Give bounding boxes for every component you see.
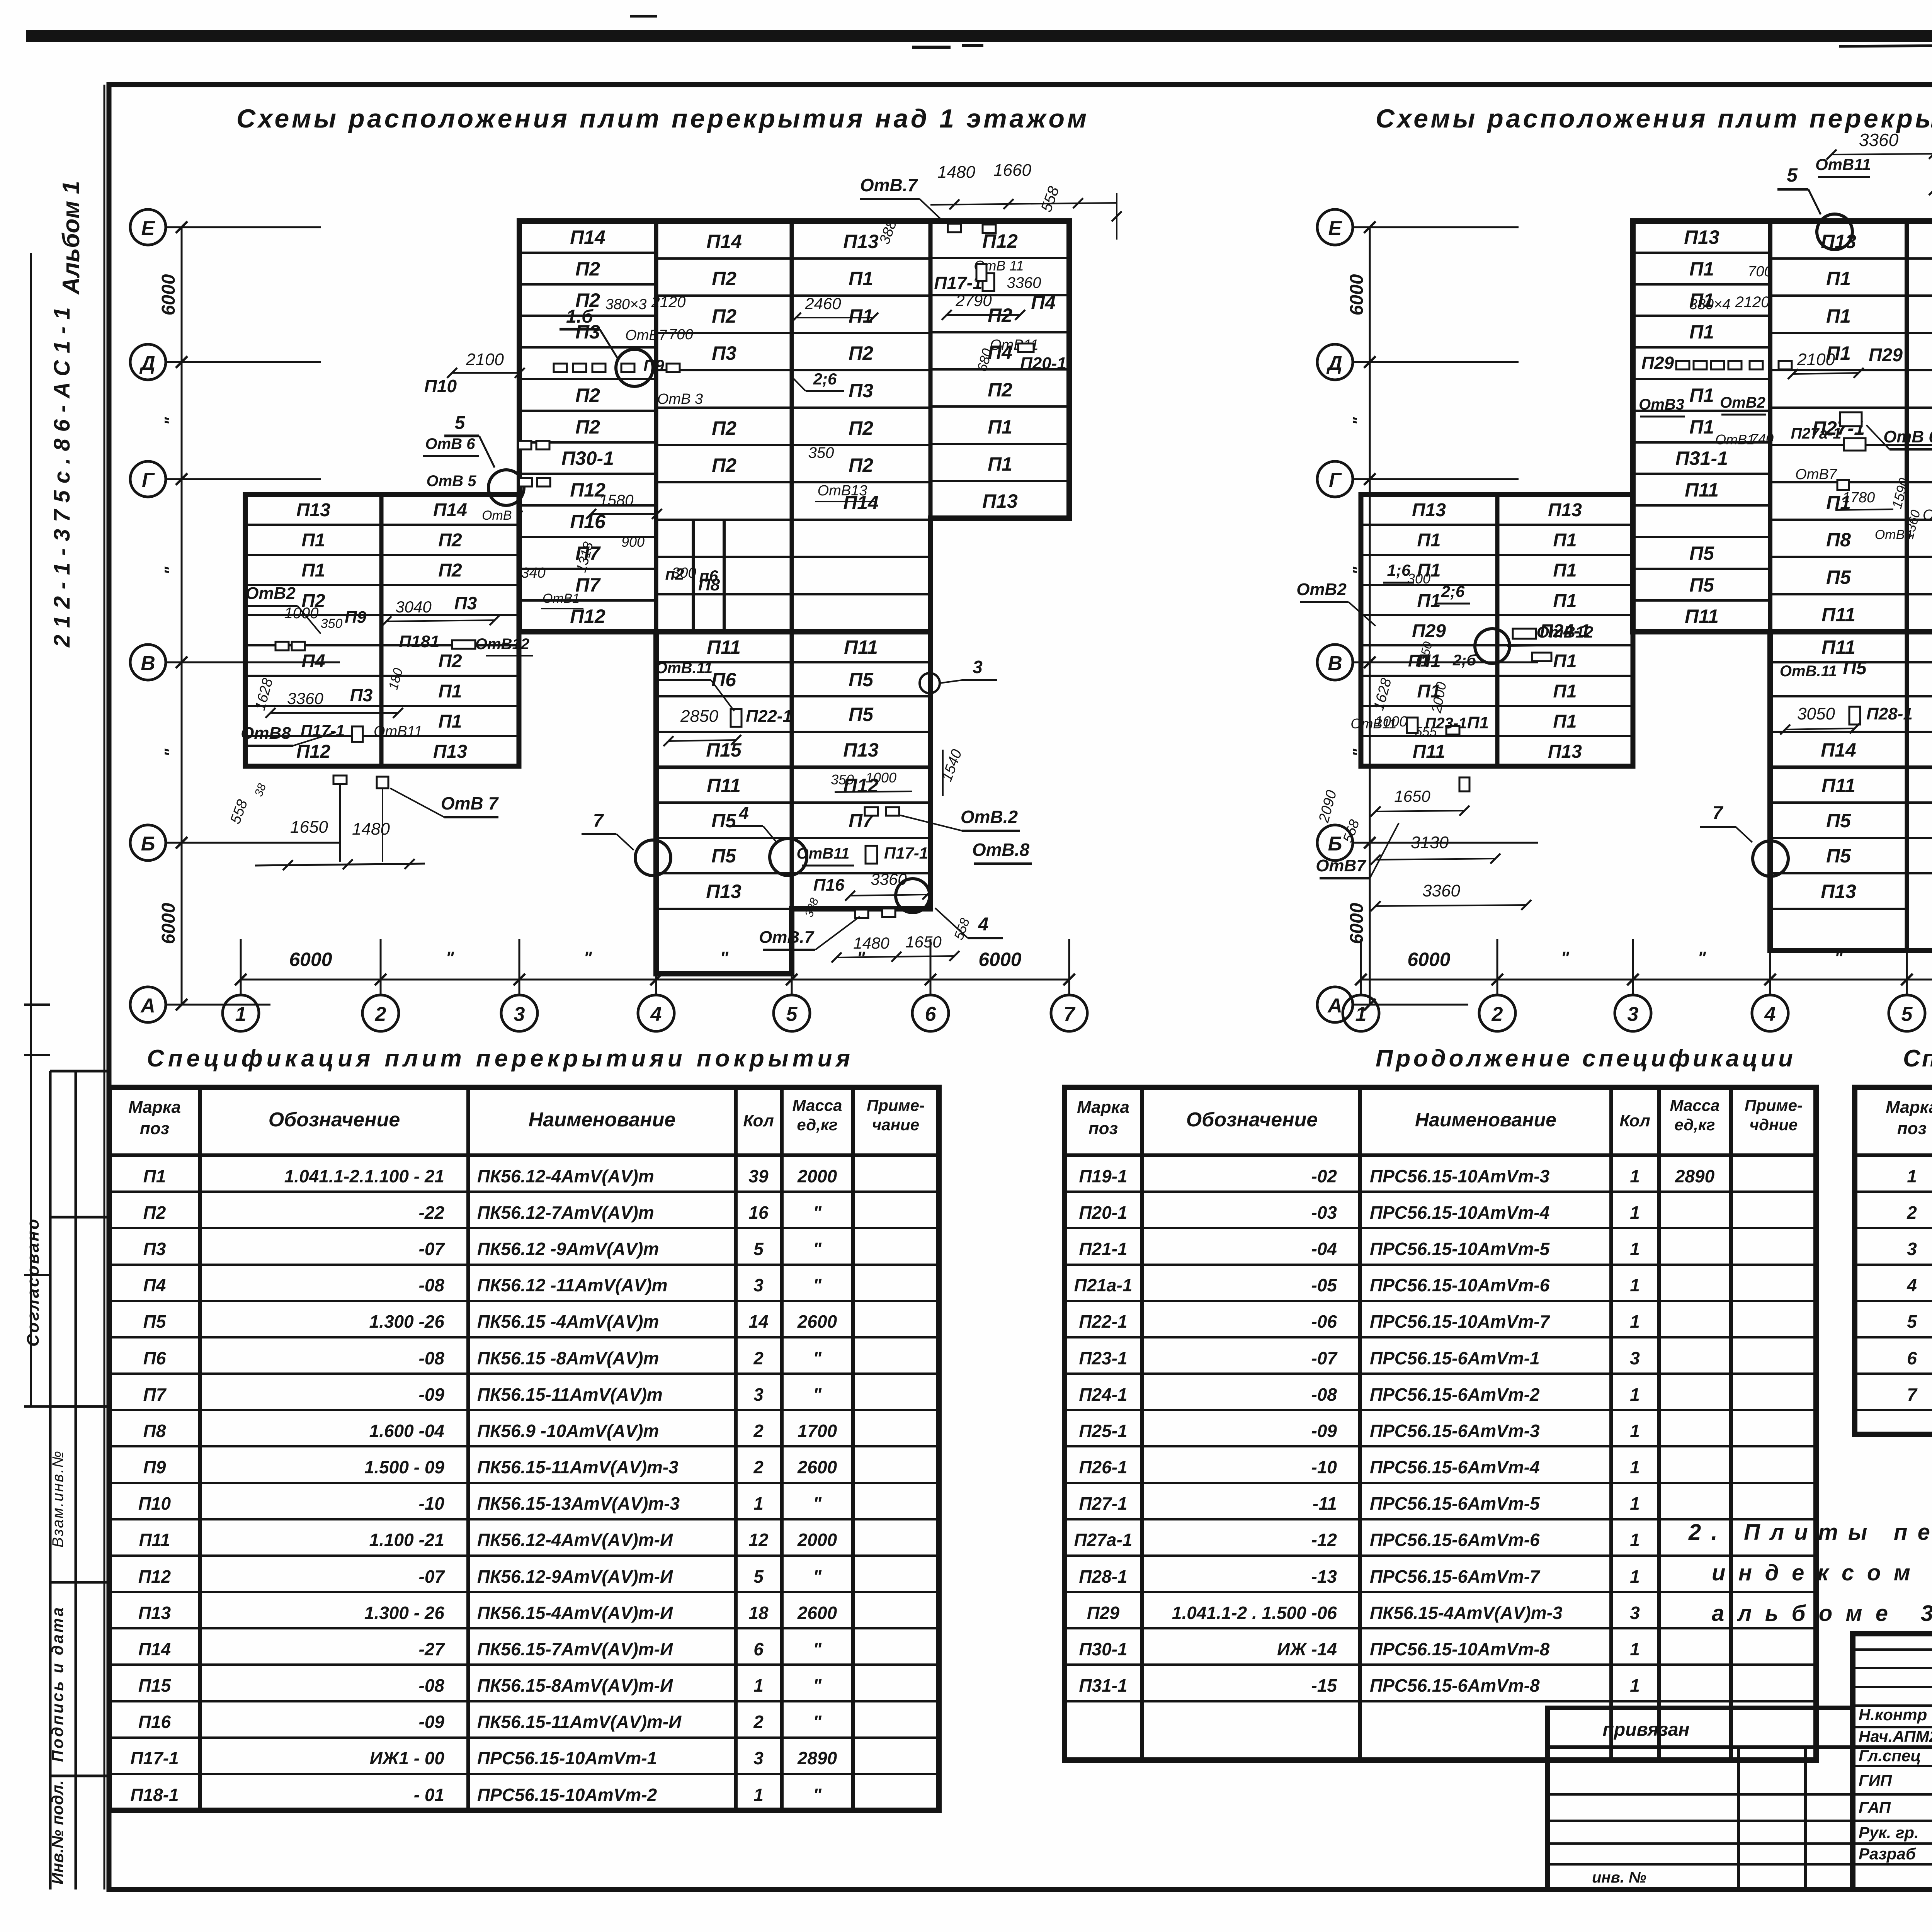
- svg-text:Кол: Кол: [743, 1111, 774, 1130]
- svg-text:ИЖ -14: ИЖ -14: [1277, 1639, 1337, 1659]
- svg-text:2100: 2100: [466, 350, 504, 369]
- svg-text:ОтВ 6: ОтВ 6: [1883, 427, 1932, 446]
- axis circle Г: [1317, 461, 1353, 497]
- svg-text:3: 3: [973, 657, 983, 677]
- svg-text:1: 1: [753, 1493, 764, 1514]
- svg-text:1700: 1700: [798, 1421, 837, 1441]
- svg-text:16: 16: [748, 1202, 769, 1223]
- svg-text:ОтВ12: ОтВ12: [475, 636, 529, 653]
- svg-text:П24-1: П24-1: [1079, 1384, 1127, 1405]
- svg-text:П1: П1: [1553, 530, 1577, 551]
- svg-text:ПРС56.15-6АтVт-5: ПРС56.15-6АтVт-5: [1370, 1493, 1540, 1514]
- svg-text:поз: поз: [1088, 1119, 1118, 1138]
- svg-text:П10: П10: [138, 1493, 171, 1514]
- svg-text:1480: 1480: [352, 820, 390, 838]
- svg-text:6000: 6000: [1347, 274, 1367, 315]
- svg-text:Масса: Масса: [793, 1096, 842, 1114]
- svg-text:-07: -07: [419, 1239, 446, 1259]
- svg-text:1.041.1-2.1.100 - 21: 1.041.1-2.1.100 - 21: [284, 1166, 444, 1186]
- axis Г row line: [1352, 478, 1519, 480]
- svg-text:ПРС56.15-10АтVт-2: ПРС56.15-10АтVт-2: [477, 1785, 657, 1805]
- svg-text:ОтВ13: ОтВ13: [818, 483, 867, 499]
- svg-text:П13: П13: [1548, 500, 1582, 520]
- svg-text:- 01: - 01: [414, 1785, 444, 1805]
- svg-text:П13: П13: [706, 881, 742, 902]
- revision extension box: [1548, 1708, 1853, 1889]
- svg-text:2600: 2600: [797, 1311, 837, 1332]
- svg-text:П23-1: П23-1: [1079, 1348, 1127, 1368]
- svg-text:П2: П2: [988, 379, 1012, 401]
- svg-text:1: 1: [1630, 1421, 1640, 1441]
- svg-text:П5: П5: [1826, 566, 1851, 588]
- svg-text:-27: -27: [419, 1639, 446, 1659]
- svg-text:ПК56.12-7АтV(АV)т: ПК56.12-7АтV(АV)т: [477, 1202, 654, 1223]
- svg-text:П1: П1: [1689, 416, 1714, 438]
- svg-text:2100: 2100: [1797, 350, 1835, 369]
- svg-text:": ": [1349, 417, 1368, 425]
- small cells п2 п6: [692, 520, 695, 632]
- svg-text:ОтВ7: ОтВ7: [625, 327, 668, 344]
- svg-text:П1: П1: [988, 453, 1012, 475]
- svg-text:ПРС56.15-6АтVт-2: ПРС56.15-6АтVт-2: [1370, 1384, 1540, 1405]
- svg-text:П21а-1: П21а-1: [1074, 1275, 1133, 1295]
- svg-text:14: 14: [748, 1311, 768, 1332]
- svg-text:П3: П3: [712, 342, 736, 364]
- svg-text:1.б: 1.б: [566, 306, 594, 327]
- svg-text:350: 350: [321, 616, 343, 631]
- svg-text:2;б: 2;б: [1452, 652, 1477, 669]
- below-B dim cluster 1650 1480 ОтВ7: [333, 776, 347, 784]
- axis circle Д: [130, 344, 166, 380]
- axis Б row line: [1352, 842, 1538, 844]
- svg-text:ед,кг: ед,кг: [1674, 1116, 1715, 1134]
- svg-text:П1: П1: [438, 681, 462, 702]
- svg-text:ОтВ8: ОтВ8: [241, 724, 291, 743]
- left plan block B outline: [245, 495, 519, 766]
- svg-text:-08: -08: [419, 1275, 445, 1295]
- svg-text:1.041.1-2 . 1.500 -06: 1.041.1-2 . 1.500 -06: [1172, 1603, 1337, 1623]
- svg-text:П11: П11: [1685, 605, 1719, 627]
- svg-text:380×3: 380×3: [605, 296, 647, 313]
- svg-text:ПК56.12-4АтV(АV)т: ПК56.12-4АтV(АV)т: [477, 1166, 654, 1186]
- svg-text:700: 700: [668, 327, 693, 343]
- svg-text:3: 3: [753, 1748, 764, 1768]
- svg-text:ОтВ7: ОтВ7: [1795, 466, 1838, 483]
- axis circle Д: [1317, 344, 1353, 380]
- svg-text:П30-1: П30-1: [1079, 1639, 1127, 1659]
- svg-text:П8: П8: [1826, 529, 1851, 551]
- svg-text:П11: П11: [707, 775, 741, 796]
- svg-text:Приме-: Приме-: [1745, 1096, 1803, 1114]
- svg-text:3: 3: [753, 1384, 764, 1405]
- svg-text:ПК56.15-11АтV(АV)т-И: ПК56.15-11АтV(АV)т-И: [477, 1712, 682, 1732]
- column line 4 stub: [1769, 939, 1771, 995]
- svg-text:Схемы расположения плит перекр: Схемы расположения плит перекрытия над I…: [1376, 104, 1932, 133]
- column line 4 stub: [655, 939, 657, 995]
- svg-text:1;6: 1;6: [1387, 561, 1411, 579]
- svg-text:-07: -07: [419, 1566, 446, 1587]
- svg-text:П1: П1: [1826, 268, 1851, 289]
- svg-text:ПРС56.15-6АтVт-3: ПРС56.15-6АтVт-3: [1370, 1421, 1540, 1441]
- svg-text:ОтВ 7: ОтВ 7: [441, 793, 499, 813]
- svg-text:ОтВ11: ОтВ11: [1350, 716, 1396, 731]
- svg-text:6000: 6000: [289, 949, 332, 970]
- svg-text:1: 1: [1630, 1166, 1640, 1186]
- svg-text:П31-1: П31-1: [1079, 1675, 1127, 1696]
- axis circle Е: [130, 209, 166, 245]
- svg-text:Спецификация узлов перекрытия: Спецификация узлов перекрытия и покрытий: [1903, 1045, 1932, 1072]
- svg-text:1: 1: [1630, 1566, 1640, 1587]
- axis circle В: [130, 645, 166, 680]
- svg-text:1: 1: [1630, 1639, 1640, 1659]
- svg-text:В: В: [1328, 652, 1342, 675]
- axis circle Е: [1317, 209, 1353, 245]
- svg-text:Обозначение: Обозначение: [269, 1109, 400, 1131]
- svg-text:Согласовано: Согласовано: [24, 1219, 43, 1347]
- svg-text:6000: 6000: [158, 274, 179, 315]
- svg-text:П2: П2: [849, 454, 873, 476]
- svg-text:Б: Б: [1328, 833, 1342, 855]
- svg-text:": ": [813, 1675, 822, 1696]
- svg-text:ОтВ3: ОтВ3: [1639, 396, 1684, 413]
- svg-text:ПК56.15-11АтV(АV)т-3: ПК56.15-11АтV(АV)т-3: [477, 1457, 679, 1477]
- svg-text:1650: 1650: [905, 933, 942, 951]
- svg-text:5: 5: [753, 1239, 764, 1259]
- left plan block A (top band) outline: [519, 221, 1069, 632]
- axis Б row line: [165, 842, 340, 844]
- svg-text:П11: П11: [844, 636, 878, 658]
- svg-text:П5: П5: [1826, 810, 1851, 832]
- svg-text:5: 5: [1787, 164, 1798, 186]
- svg-text:П11: П11: [1413, 742, 1445, 762]
- svg-text:ГИП: ГИП: [1859, 1771, 1892, 1789]
- svg-text:ПРС56.15-6АтVт-4: ПРС56.15-6АтVт-4: [1370, 1457, 1540, 1477]
- svg-text:П15: П15: [706, 739, 742, 761]
- bottom column dimension line: [241, 979, 1069, 981]
- svg-text:2;6: 2;6: [1441, 582, 1465, 600]
- svg-text:1: 1: [1630, 1311, 1640, 1332]
- svg-text:6000: 6000: [158, 903, 179, 944]
- svg-text:П22-1: П22-1: [746, 707, 792, 726]
- svg-text:П9: П9: [345, 608, 367, 627]
- svg-text:ПК56.15-8АтV(АV)т-И: ПК56.15-8АтV(АV)т-И: [477, 1675, 673, 1696]
- svg-text:7: 7: [1064, 1003, 1076, 1026]
- svg-text:Е: Е: [141, 217, 155, 240]
- svg-text:П27а-1: П27а-1: [1074, 1530, 1133, 1550]
- svg-text:3: 3: [1628, 1003, 1639, 1026]
- axis В row line: [1352, 662, 1538, 663]
- svg-text:ПРС56.15-10АтVт-6: ПРС56.15-10АтVт-6: [1370, 1275, 1550, 1295]
- vertical axis dimension chain: [1369, 227, 1371, 1005]
- svg-text:П16: П16: [138, 1712, 171, 1732]
- svg-text:ПРС56.15-10АтVт-5: ПРС56.15-10АтVт-5: [1370, 1239, 1550, 1259]
- svg-text:П9: П9: [643, 356, 664, 374]
- svg-text:привязан: привязан: [1603, 1719, 1690, 1740]
- svg-text:4: 4: [650, 1003, 662, 1026]
- svg-text:7: 7: [593, 811, 604, 831]
- svg-text:ОтВ11: ОтВ11: [374, 723, 422, 740]
- svg-text:ОтВ 3: ОтВ 3: [657, 391, 703, 407]
- svg-text:2: 2: [753, 1348, 764, 1368]
- svg-text:П20-1: П20-1: [1020, 354, 1066, 373]
- svg-text:П14: П14: [433, 500, 467, 520]
- svg-text:4: 4: [1906, 1275, 1917, 1295]
- svg-text:Схемы расположения плит перекр: Схемы расположения плит перекрытия над 1…: [236, 104, 1087, 133]
- column line 3 stub: [1632, 939, 1634, 995]
- svg-text:П8: П8: [143, 1421, 166, 1441]
- svg-text:Наименование: Наименование: [1415, 1109, 1556, 1131]
- svg-text:-02: -02: [1311, 1166, 1337, 1186]
- svg-text:2: 2: [375, 1003, 386, 1026]
- svg-text:ОтВ11: ОтВ11: [1815, 155, 1871, 173]
- right plan block D outline: [1770, 632, 1932, 951]
- column line 5 stub: [1906, 939, 1908, 995]
- svg-text:1.300 - 26: 1.300 - 26: [364, 1603, 445, 1623]
- svg-text:ГАП: ГАП: [1859, 1798, 1891, 1816]
- svg-text:П12: П12: [296, 742, 330, 762]
- svg-text:2: 2: [753, 1421, 764, 1441]
- svg-text:П11: П11: [1821, 775, 1855, 796]
- svg-text:П1: П1: [849, 305, 873, 327]
- svg-text:П13: П13: [433, 742, 467, 762]
- left plan block D outline: [656, 632, 930, 974]
- svg-text:ПРС56.15-6АтVт-7: ПРС56.15-6АтVт-7: [1370, 1566, 1541, 1587]
- svg-text:ПРС56.15-10АтVт-7: ПРС56.15-10АтVт-7: [1370, 1311, 1551, 1332]
- svg-text:2120: 2120: [651, 294, 686, 311]
- right plan block B outline: [1361, 495, 1633, 766]
- svg-text:ОтВ.11: ОтВ.11: [1780, 663, 1837, 680]
- svg-text:350: 350: [808, 444, 834, 461]
- svg-text:-04: -04: [1311, 1239, 1337, 1259]
- svg-text:П17-1: П17-1: [934, 273, 982, 293]
- svg-text:Приме-: Приме-: [867, 1096, 925, 1114]
- column circle 4: [1752, 995, 1788, 1031]
- svg-text:-06: -06: [1311, 1311, 1337, 1332]
- column circle 3: [501, 995, 537, 1031]
- svg-text:1: 1: [1907, 1166, 1917, 1186]
- svg-text:2890: 2890: [1675, 1166, 1715, 1186]
- svg-text:": ": [813, 1202, 822, 1223]
- svg-text:Обозначение: Обозначение: [1186, 1109, 1318, 1131]
- column line 1 stub: [1360, 939, 1362, 995]
- svg-text:ПК56.15-13АтV(АV)т-3: ПК56.15-13АтV(АV)т-3: [477, 1493, 680, 1514]
- column line 3 stub: [519, 939, 520, 995]
- svg-text:Б: Б: [141, 833, 155, 855]
- svg-text:П2: П2: [575, 258, 600, 280]
- svg-text:1.300 -26: 1.300 -26: [369, 1311, 445, 1332]
- svg-text:П11: П11: [1685, 479, 1719, 501]
- svg-text:Г: Г: [142, 469, 155, 492]
- svg-text:П14: П14: [570, 226, 605, 248]
- left margin stamp boxes: [49, 1071, 52, 1889]
- svg-text:5: 5: [1907, 1311, 1917, 1332]
- svg-text:ОтВ.11: ОтВ.11: [655, 660, 713, 677]
- svg-text:П181: П181: [399, 632, 439, 651]
- svg-text:2: 2: [1492, 1003, 1503, 1026]
- svg-text:3360: 3360: [287, 689, 323, 707]
- svg-text:П28-1: П28-1: [1079, 1566, 1127, 1587]
- svg-text:П13: П13: [1412, 500, 1446, 520]
- svg-text:1650: 1650: [1394, 787, 1430, 805]
- svg-text:П13: П13: [138, 1603, 171, 1623]
- svg-text:П2: П2: [438, 530, 462, 551]
- svg-text:П29: П29: [1641, 353, 1674, 373]
- svg-text:300: 300: [672, 565, 696, 581]
- svg-text:П1: П1: [301, 560, 325, 581]
- axis Е row line: [165, 226, 321, 228]
- svg-text:П3: П3: [350, 685, 373, 705]
- svg-text:-12: -12: [1311, 1530, 1337, 1550]
- svg-text:1650: 1650: [290, 818, 328, 837]
- axis circle Б: [1317, 825, 1353, 861]
- svg-text:В: В: [141, 652, 155, 675]
- svg-text:П3: П3: [454, 593, 477, 613]
- svg-text:Подпись и дата: Подпись и дата: [48, 1607, 66, 1762]
- svg-text:П9: П9: [143, 1457, 166, 1477]
- svg-text:5: 5: [1901, 1003, 1913, 1026]
- svg-text:-09: -09: [1311, 1421, 1337, 1441]
- svg-text:-11: -11: [1313, 1493, 1337, 1514]
- svg-text:П2: П2: [575, 384, 600, 406]
- svg-text:ПРС56.15-10АтVт-3: ПРС56.15-10АтVт-3: [1370, 1166, 1550, 1186]
- svg-text:": ": [583, 948, 592, 968]
- column circle 2: [1479, 995, 1515, 1031]
- svg-text:1: 1: [1630, 1384, 1640, 1405]
- svg-text:П10: П10: [424, 376, 457, 396]
- svg-text:": ": [161, 748, 180, 757]
- svg-text:П3: П3: [143, 1239, 166, 1259]
- svg-text:П14: П14: [138, 1639, 171, 1659]
- svg-text:": ": [813, 1239, 822, 1259]
- svg-text:2460: 2460: [804, 294, 841, 313]
- svg-text:П2: П2: [712, 454, 736, 476]
- svg-text:2790: 2790: [955, 291, 992, 310]
- svg-text:ПК56.15 -4АтV(АV)т: ПК56.15 -4АтV(АV)т: [477, 1311, 659, 1332]
- axis Д row line: [165, 361, 321, 363]
- svg-text:чание: чание: [872, 1116, 919, 1134]
- svg-text:П4: П4: [1031, 292, 1056, 313]
- column circle 2: [362, 995, 399, 1031]
- svg-text:2120: 2120: [1735, 294, 1770, 311]
- svg-text:2600: 2600: [797, 1457, 837, 1477]
- svg-text:ПК56.12 -9АтV(АV)т: ПК56.12 -9АтV(АV)т: [477, 1239, 659, 1259]
- svg-text:-09: -09: [419, 1712, 445, 1732]
- column circle 1: [1343, 995, 1379, 1031]
- svg-text:П18-1: П18-1: [130, 1785, 179, 1805]
- svg-text:ПК56.12-4АтV(АV)т-И: ПК56.12-4АтV(АV)т-И: [477, 1530, 673, 1550]
- svg-text:Марка: Марка: [1886, 1098, 1932, 1117]
- svg-text:6: 6: [753, 1639, 764, 1659]
- svg-text:П11: П11: [139, 1530, 170, 1550]
- svg-text:Кол: Кол: [1619, 1111, 1650, 1130]
- main title block frame: [1853, 1634, 1932, 1889]
- svg-text:1: 1: [753, 1675, 764, 1696]
- svg-text:4: 4: [978, 914, 989, 935]
- axis circle Б: [130, 825, 166, 861]
- svg-text:П2: П2: [575, 416, 600, 438]
- svg-text:А: А: [140, 995, 155, 1017]
- axis Е row line: [1352, 226, 1519, 228]
- svg-text:П5: П5: [849, 669, 874, 690]
- svg-text:-07: -07: [1311, 1348, 1338, 1368]
- svg-text:индексом в конце марки: индексом в конце марки (-1) даны в: [1712, 1560, 1932, 1585]
- svg-text:5: 5: [786, 1003, 798, 1026]
- svg-text:П1: П1: [143, 1166, 166, 1186]
- svg-text:-10: -10: [1311, 1457, 1337, 1477]
- svg-text:3360: 3360: [1422, 881, 1460, 900]
- svg-text:П28-1: П28-1: [1866, 704, 1913, 723]
- svg-text:6000: 6000: [1347, 903, 1367, 944]
- svg-text:П11: П11: [1821, 604, 1855, 626]
- svg-text:380×4: 380×4: [1689, 296, 1731, 313]
- svg-text:5: 5: [455, 413, 466, 433]
- svg-text:Взам.инв.№: Взам.инв.№: [49, 1451, 66, 1548]
- svg-text:П1: П1: [1553, 651, 1577, 672]
- node circle 4 (bottom right): [896, 879, 930, 913]
- svg-text:1480: 1480: [937, 163, 975, 182]
- svg-text:7: 7: [1713, 803, 1724, 823]
- column line 7 stub: [1068, 939, 1070, 995]
- svg-text:ПК56.15-4АтV(АV)т-3: ПК56.15-4АтV(АV)т-3: [1370, 1603, 1563, 1623]
- svg-text:6000: 6000: [978, 949, 1021, 970]
- right plan block A outline: [1633, 221, 1932, 632]
- svg-text:П11: П11: [1821, 636, 1855, 658]
- svg-text:ПРС56.15-6АтVт-6: ПРС56.15-6АтVт-6: [1370, 1530, 1540, 1550]
- svg-text:300: 300: [1407, 571, 1430, 587]
- svg-text:1: 1: [1630, 1457, 1640, 1477]
- svg-text:ОтВ12: ОтВ12: [1536, 623, 1593, 641]
- svg-text:П1: П1: [1689, 384, 1714, 406]
- svg-text:2600: 2600: [797, 1603, 837, 1623]
- svg-text:П13: П13: [1821, 881, 1856, 902]
- svg-text:П5: П5: [849, 704, 874, 725]
- svg-text:П1: П1: [1408, 651, 1430, 670]
- svg-text:П2: П2: [438, 651, 462, 672]
- svg-text:П29: П29: [1412, 621, 1446, 641]
- svg-text:6: 6: [1907, 1348, 1917, 1368]
- svg-text:ПРС56.15-10АтVт-4: ПРС56.15-10АтVт-4: [1370, 1202, 1549, 1223]
- svg-text:18: 18: [748, 1603, 769, 1623]
- svg-text:39: 39: [748, 1166, 769, 1186]
- node circle 3 (right edge): [920, 673, 940, 693]
- svg-text:3: 3: [1630, 1348, 1640, 1368]
- svg-text:П7: П7: [143, 1384, 167, 1405]
- svg-text:": ": [161, 566, 180, 575]
- svg-text:1: 1: [1630, 1239, 1640, 1259]
- svg-text:3360: 3360: [1859, 130, 1899, 150]
- svg-text:ПРС56.15-6АтVт-8: ПРС56.15-6АтVт-8: [1370, 1675, 1540, 1696]
- svg-text:ПК56.9 -10АтV(АV)т: ПК56.9 -10АтV(АV)т: [477, 1421, 659, 1441]
- column circle 4: [638, 995, 674, 1031]
- svg-text:Разраб: Разраб: [1859, 1845, 1916, 1863]
- svg-text:1.600 -04: 1.600 -04: [369, 1421, 444, 1441]
- svg-text:П17-1: П17-1: [884, 844, 928, 862]
- axis А row line: [165, 1004, 270, 1006]
- svg-text:П1: П1: [1689, 258, 1714, 280]
- svg-text:ОтВ.2: ОтВ.2: [961, 807, 1018, 827]
- svg-text:Альбом 1: Альбом 1: [58, 181, 85, 295]
- svg-text:П27а-1: П27а-1: [1791, 425, 1841, 442]
- svg-text:Марка: Марка: [1077, 1098, 1129, 1117]
- svg-text:1: 1: [1630, 1530, 1640, 1550]
- column circle 3: [1615, 995, 1651, 1031]
- svg-text:П4: П4: [143, 1275, 166, 1295]
- svg-text:ИЖ1 - 00: ИЖ1 - 00: [370, 1748, 445, 1768]
- column line 2 stub: [380, 939, 382, 995]
- svg-text:": ": [1561, 948, 1570, 968]
- svg-text:1000: 1000: [866, 770, 896, 786]
- svg-text:поз: поз: [1897, 1119, 1927, 1138]
